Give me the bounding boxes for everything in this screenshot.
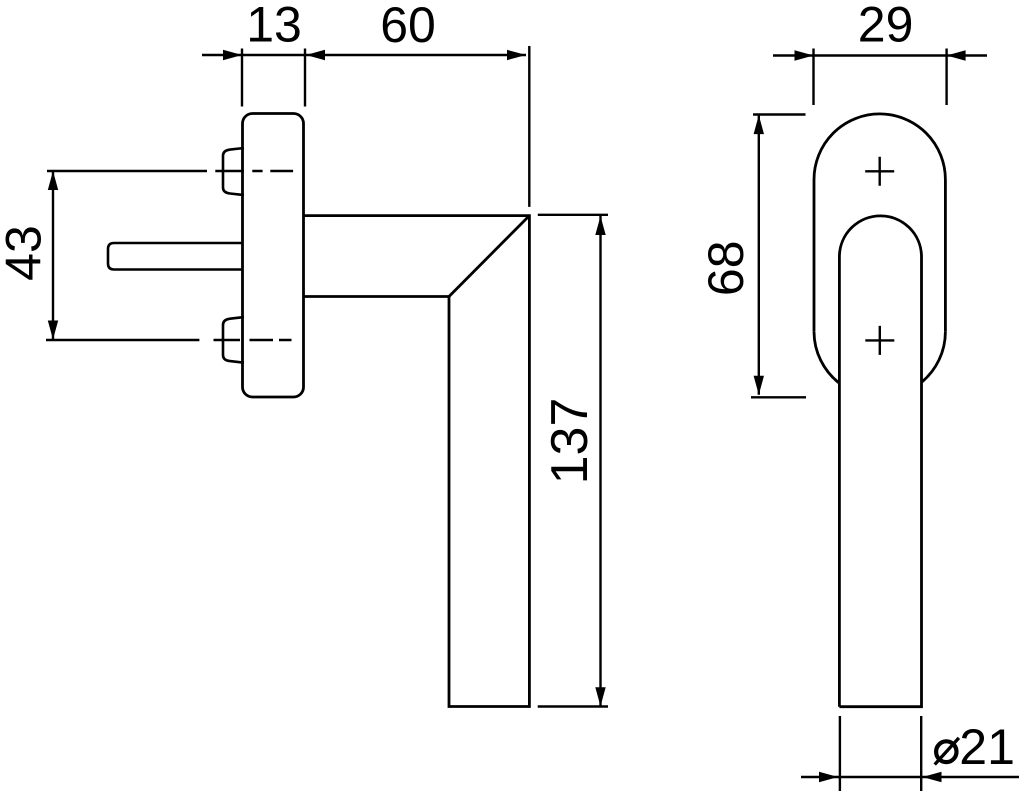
arrow 13 left: [223, 50, 242, 60]
svg-text:137: 137: [541, 398, 599, 485]
arrow 137 down: [595, 687, 605, 706]
arrow 60 right: [507, 50, 526, 60]
top screw head: [223, 148, 244, 195]
dimension 137 vertical line: [599, 216, 601, 706]
cross marker top: [865, 157, 894, 186]
arrow 29 left: [795, 50, 814, 60]
extension line o21 right: [920, 716, 922, 791]
handle neck and grip outline (side view): [304, 216, 530, 707]
dimension 137 top tick: [538, 214, 608, 216]
bottom screw head: [223, 317, 244, 363]
dimension line 13/60: [202, 54, 526, 56]
rosette stadium outline (front view): [814, 114, 945, 332]
arrow 13 right: [306, 50, 325, 60]
arrow o21 right: [923, 772, 942, 782]
extension line 29 right: [945, 49, 947, 106]
extension line o21 left: [839, 716, 841, 791]
rosette bottom-left arc: [814, 332, 839, 384]
diameter symbol slash: [935, 738, 959, 765]
extension line at plate right: [304, 49, 306, 107]
dimension line o21: [801, 776, 1019, 778]
spindle shaft: [108, 243, 243, 270]
centerline top screw: [47, 170, 293, 172]
dimension line 29: [773, 54, 987, 56]
grip front view with arch top: [839, 216, 921, 707]
arrow 43 up: [48, 171, 58, 190]
arrow o21 left: [819, 772, 838, 782]
arrow 68 up: [754, 115, 764, 134]
rosette plate (side view): [243, 114, 304, 398]
extension line 29 left: [812, 49, 814, 106]
arrow 137 up: [595, 216, 605, 235]
extension line 68 top: [753, 113, 806, 115]
arrow 29 right: [947, 50, 966, 60]
svg-text:43: 43: [0, 225, 52, 281]
svg-text:21: 21: [959, 719, 1015, 775]
svg-text:29: 29: [858, 0, 914, 53]
extension line at handle corner: [528, 46, 530, 207]
cross marker bottom: [865, 326, 894, 355]
arrow 68 down: [754, 376, 764, 395]
centerline bottom screw: [46, 339, 292, 341]
dimension 68 vertical line: [758, 115, 760, 395]
svg-text:13: 13: [246, 0, 302, 53]
extension line at plate left: [241, 49, 243, 107]
svg-text:60: 60: [380, 0, 436, 53]
arrow 43 down: [48, 321, 58, 340]
svg-text:68: 68: [698, 240, 754, 296]
extension line 68 bottom: [751, 396, 806, 398]
diameter symbol circle: [936, 741, 956, 762]
neck diagonal edge: [449, 216, 529, 297]
dimension 43 vertical line: [52, 171, 54, 340]
dimension 137 bottom tick: [538, 705, 608, 707]
rosette bottom-right arc: [922, 332, 946, 383]
